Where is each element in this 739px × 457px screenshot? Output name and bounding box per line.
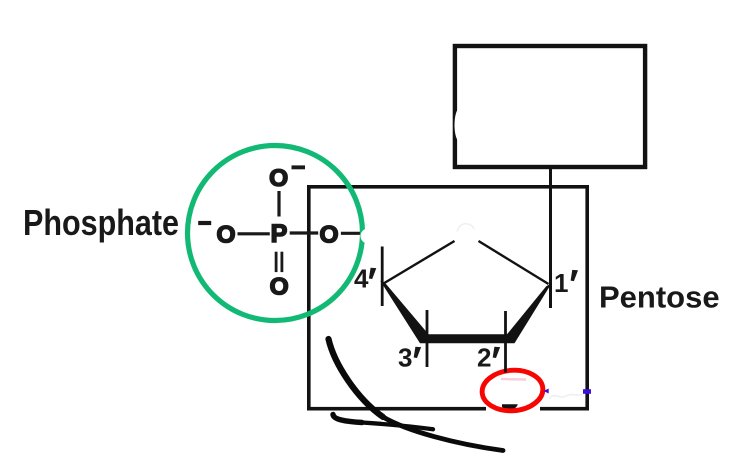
base box (empty rectangle top right) [455,46,645,167]
label 4' [354,264,376,294]
label 1' [554,268,578,298]
oxygen O bottom [270,273,289,300]
red ellipse around C2' position [481,368,544,413]
pentose ring: thin bond C4'-O4' (upper left edge) [384,241,455,284]
label 3' [398,343,421,373]
double bond P=O [276,252,282,272]
hand-drawn short curve [333,415,433,430]
charge minus on top O [292,165,306,169]
svg-text:Phosphate: Phosphate [23,202,179,243]
blue arrowhead mark left [544,389,549,394]
ghost of erased ring oxygen at apex [457,224,474,232]
dark wedge remnant of bottom edge inside red ellipse [502,404,518,410]
label 2' [477,343,500,373]
svg-text:1: 1 [554,268,568,298]
svg-text:O: O [269,165,288,192]
hand-drawn long curve [329,339,504,451]
white-out notch on green circle right edge [361,229,376,244]
faint gray smudge right of red ellipse [549,395,583,400]
charge minus on left O [198,221,211,225]
oxygen O top [269,165,288,192]
tick bond at C3' [426,310,429,367]
tick bond at C2' [504,311,507,373]
svg-text:2: 2 [477,343,491,373]
bond P to O right [290,231,319,234]
svg-text:P: P [271,220,288,248]
white-out notch on base box left border [455,109,465,142]
bond P to O top [277,191,280,217]
label Pentose [599,280,720,315]
oxygen O right [319,221,338,248]
wire: bond from base box down to C1' [549,169,552,308]
svg-text:O: O [270,273,289,300]
green highlight circle around phosphate [188,146,363,321]
bond O left to P [238,232,270,235]
svg-text:O: O [319,221,338,248]
label Phosphate [23,202,179,243]
tick bond at C4' [381,247,384,307]
pentose ring: bold lower edges C4'-C3'-C2'-C1' [380,281,551,344]
svg-text:3: 3 [398,343,412,373]
pentose ring: thin bond O4'-C1' (upper right edge) [479,241,549,284]
oxygen O left [216,221,235,248]
blue square mark right [583,389,591,394]
svg-text:Pentose: Pentose [599,280,720,315]
bond stub right of O (to erased C5') [341,232,361,235]
white-out gap on pentose box bottom edge inside red ellipse [486,401,540,413]
svg-text:O: O [216,221,235,248]
pentose box [309,187,587,409]
faint pink mark inside red ellipse [501,378,526,381]
phosphorus P [271,220,288,248]
